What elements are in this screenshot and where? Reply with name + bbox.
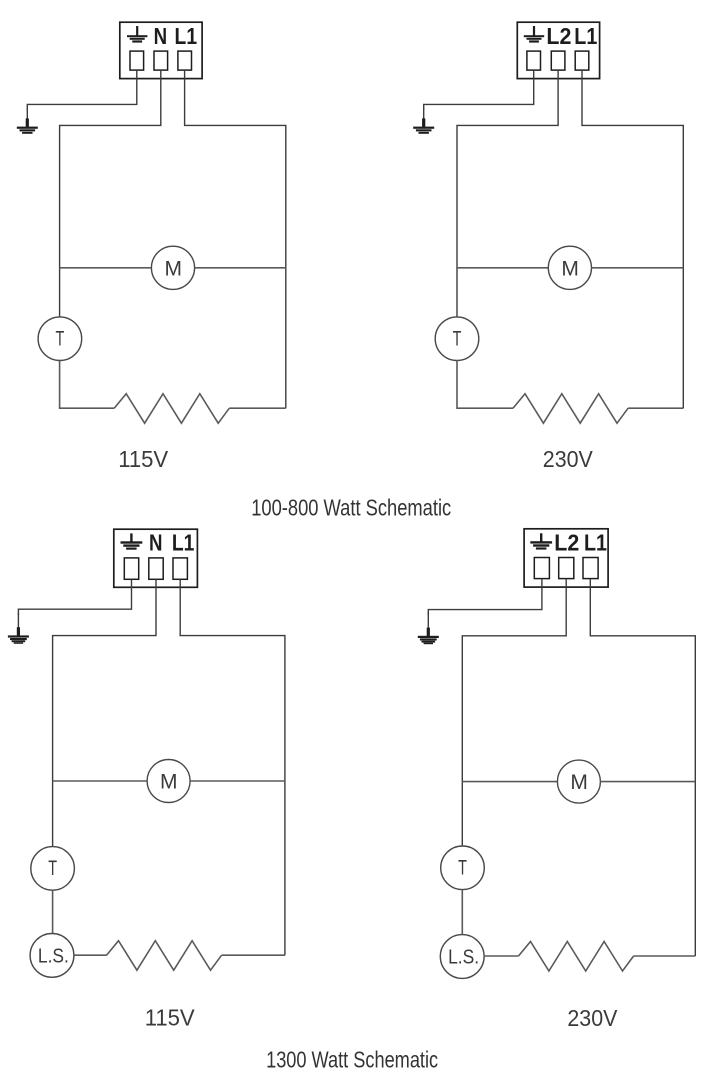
wire T4 to limit switch: [461, 890, 463, 936]
earth ground symbol G2: [413, 108, 434, 134]
wire TB3 L1 pin to circuit right: [180, 579, 285, 955]
motor M4: [557, 760, 600, 803]
label 230V (top right): [543, 446, 593, 472]
thermostat T1: [38, 317, 82, 361]
wire R3 to bottom right corner (115V): [222, 954, 285, 956]
thermostat T3: [31, 847, 75, 891]
svg-text:N: N: [154, 23, 168, 49]
svg-text:T: T: [453, 328, 462, 351]
heating element R3: [107, 941, 222, 971]
wire LS2 to element: [484, 955, 519, 957]
earth ground symbol G4: [418, 613, 439, 644]
wire motor branch left (1300W 230V): [462, 781, 557, 783]
svg-text:L2: L2: [554, 529, 579, 555]
svg-text:M: M: [160, 771, 178, 794]
svg-text:L2: L2: [546, 23, 571, 49]
TB4 terminal square pin 3 (L1): [583, 558, 598, 579]
label 115V (bottom left): [145, 1005, 196, 1031]
limit switch LS2: [440, 935, 484, 979]
TB2 terminal square pin 2 (L2): [551, 51, 565, 70]
wire T1 to bottom left corner: [60, 361, 115, 409]
wire motor branch left (1300W 115V): [53, 780, 148, 782]
wire TB1 L1 pin to circuit right: [185, 70, 286, 408]
wire motor branch left: [60, 267, 152, 269]
TB4 terminal square pin 2 (L2): [559, 558, 574, 579]
wire motor branch left (230V): [457, 267, 548, 269]
wire R1 to bottom right corner: [229, 407, 285, 409]
svg-text:N: N: [149, 529, 163, 555]
terminal block TB4 (230V input): [524, 529, 608, 587]
thermostat T2: [435, 317, 479, 361]
terminal block TB3 (115V input): [114, 529, 198, 587]
wire TB4 L1 pin to circuit right: [590, 579, 695, 956]
svg-text:T: T: [458, 857, 467, 880]
svg-text:L1: L1: [574, 23, 597, 49]
ground symbol inside TB1: [127, 26, 147, 43]
svg-text:230V: 230V: [543, 446, 593, 472]
label L1 on TB2: [574, 23, 597, 49]
motor M1: [151, 246, 194, 289]
ground symbol inside TB3: [121, 533, 143, 549]
caption 1300 Watt Schematic: [266, 1047, 438, 1073]
label L1 on TB3: [172, 529, 195, 555]
svg-text:1300 Watt Schematic: 1300 Watt Schematic: [266, 1047, 438, 1073]
svg-text:115V: 115V: [118, 446, 169, 472]
svg-text:100-800 Watt Schematic: 100-800 Watt Schematic: [251, 495, 451, 521]
wire motor branch right (1300W 115V): [190, 780, 285, 782]
svg-text:115V: 115V: [145, 1005, 196, 1031]
TB4 terminal square pin 1 (ground): [534, 558, 549, 579]
caption 100-800 Watt Schematic: [251, 495, 451, 521]
label 230V (bottom right): [567, 1005, 617, 1031]
svg-text:L.S.: L.S.: [38, 945, 69, 967]
wire motor branch right (230V): [592, 267, 684, 269]
svg-text:L1: L1: [172, 529, 195, 555]
svg-text:T: T: [56, 328, 65, 351]
wire R4 to bottom right corner (230V): [634, 955, 696, 957]
heating element R1: [114, 394, 229, 424]
svg-text:M: M: [561, 257, 579, 280]
wire LS1 to element: [74, 954, 107, 956]
svg-text:M: M: [164, 257, 182, 280]
wire TB4 L2 pin to circuit left: [462, 579, 566, 847]
svg-text:L.S.: L.S.: [448, 946, 479, 968]
label L2 on TB4: [554, 529, 579, 555]
svg-text:M: M: [570, 771, 588, 794]
wire motor branch right: [195, 267, 286, 269]
motor M3: [147, 760, 190, 803]
ground symbol inside TB2: [524, 26, 544, 43]
wire TB1 N pin to circuit left: [60, 70, 161, 317]
wire TB2 L2 pin to circuit left: [457, 70, 558, 317]
svg-text:L1: L1: [584, 529, 607, 555]
TB3 terminal square pin 1 (ground): [124, 558, 138, 579]
TB1 terminal square pin 2 (N): [154, 51, 168, 70]
ground symbol inside TB4: [530, 533, 552, 549]
wire TB1 ground pin to earth: [27, 70, 137, 110]
wire TB3 ground pin to earth: [18, 579, 131, 615]
wire R2 to bottom right corner: [628, 407, 683, 409]
thermostat T4: [441, 846, 485, 890]
wire TB2 ground pin to earth: [424, 70, 534, 110]
wire T2 to bottom left corner (230V): [457, 361, 513, 409]
label L1 on TB1: [175, 23, 198, 49]
terminal block TB2 (230V input): [517, 22, 599, 78]
svg-text:T: T: [48, 857, 57, 880]
TB2 terminal square pin 1 (ground): [527, 51, 541, 70]
wire TB2 L1 pin to circuit right: [582, 70, 683, 408]
wire motor branch right (1300W 230V): [600, 781, 695, 783]
label L1 on TB4: [584, 529, 607, 555]
label N on TB3: [149, 529, 163, 555]
limit switch LS1: [30, 934, 74, 978]
wire TB4 ground pin to earth: [428, 579, 542, 615]
motor M2: [548, 246, 591, 289]
earth ground symbol G3: [8, 613, 29, 644]
TB3 terminal square pin 3 (L1): [173, 558, 187, 579]
terminal block TB1 (115V input): [120, 22, 202, 78]
earth ground symbol G1: [17, 108, 38, 134]
wire T3 to limit switch: [52, 890, 54, 933]
TB2 terminal square pin 3 (L1): [575, 51, 589, 70]
label 115V (top left): [118, 446, 169, 472]
svg-text:L1: L1: [175, 23, 198, 49]
heating element R2: [513, 394, 628, 424]
label N on TB1: [154, 23, 168, 49]
svg-text:230V: 230V: [567, 1005, 617, 1031]
heating element R4: [519, 942, 634, 972]
TB3 terminal square pin 2 (N): [149, 558, 163, 579]
TB1 terminal square pin 1 (ground): [130, 51, 144, 70]
wire TB3 N pin to circuit left: [53, 579, 156, 846]
TB1 terminal square pin 3 (L1): [178, 51, 192, 70]
label L2 on TB2: [546, 23, 571, 49]
